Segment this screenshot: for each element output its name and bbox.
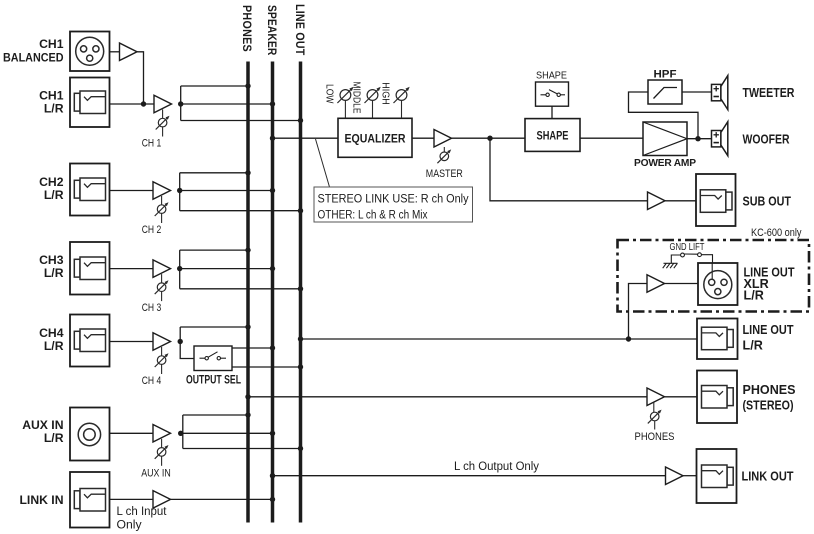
svg-text:OUTPUT SEL: OUTPUT SEL xyxy=(186,373,241,386)
svg-text:SUB OUT: SUB OUT xyxy=(743,194,792,208)
node SPEAKER bus LINK OUT tap xyxy=(270,473,275,478)
block POWER AMP xyxy=(634,122,696,169)
svg-text:LOW: LOW xyxy=(324,84,335,104)
pot HIGH xyxy=(380,82,410,118)
wire AUX jack to amp xyxy=(110,432,154,434)
svg-text:L/R: L/R xyxy=(743,339,763,353)
node AUX to SPEAKER bus xyxy=(270,431,275,436)
node CH3 amp out xyxy=(177,266,182,271)
wire master amp to SHAPE xyxy=(452,137,526,139)
block EQUALIZER xyxy=(338,118,412,157)
node PHONES bus tap xyxy=(245,394,250,399)
amp SUB OUT xyxy=(648,192,666,210)
pot AUX IN xyxy=(141,439,171,480)
amp CH3 xyxy=(153,260,171,278)
node OUTPUT SEL to SPEAKER bus xyxy=(270,345,275,350)
wire phones amp to jack xyxy=(665,396,698,398)
node speaker junction xyxy=(695,136,700,141)
node CH3 to LINE OUT bus xyxy=(298,286,303,291)
svg-text:CH 3: CH 3 xyxy=(142,302,162,314)
wire node to HPF xyxy=(629,92,699,139)
svg-text:L/R: L/R xyxy=(44,102,64,116)
svg-text:L ch Output Only: L ch Output Only xyxy=(454,459,540,473)
wire node to SUB OUT amp xyxy=(490,138,648,201)
svg-text:CH 2: CH 2 xyxy=(142,224,162,236)
bus SPEAKER xyxy=(271,62,275,523)
svg-text:MASTER: MASTER xyxy=(426,168,463,180)
jack LINE OUT XLR L/R xyxy=(698,263,795,305)
node shape tap xyxy=(487,136,492,141)
svg-text:CH3: CH3 xyxy=(39,253,64,267)
wire amp to LINK OUT jack xyxy=(683,475,697,477)
wire EQUALIZER to master amp xyxy=(412,137,434,139)
svg-text:PHONES: PHONES xyxy=(240,5,254,52)
node LINK IN to SPEAKER bus xyxy=(270,497,275,502)
svg-text:OTHER: L ch & R ch Mix: OTHER: L ch & R ch Mix xyxy=(318,208,429,222)
svg-text:AUX IN: AUX IN xyxy=(22,418,63,432)
node CH1 to LINE OUT bus xyxy=(298,118,303,123)
jack CH1 BALANCED xyxy=(3,32,110,72)
pot CH 2 xyxy=(142,196,169,236)
node AUX amp out xyxy=(178,431,183,436)
bus PHONES label xyxy=(240,5,254,52)
svg-text:L/R: L/R xyxy=(44,188,64,202)
pot MIDDLE xyxy=(351,82,381,119)
node AUX to LINE OUT bus xyxy=(298,446,303,451)
wire CH4 to PHONES bus xyxy=(180,327,248,359)
wire SPEAKER bus to LINK OUT amp xyxy=(273,475,666,477)
node CH1 to PHONES bus xyxy=(245,83,250,88)
jack AUX IN L/R xyxy=(22,408,109,461)
note L ch Output Only xyxy=(454,459,540,473)
node CH3 to SPEAKER bus xyxy=(270,266,275,271)
svg-text:L/R: L/R xyxy=(44,431,64,445)
node AUX to PHONES bus xyxy=(245,412,250,417)
svg-text:Only: Only xyxy=(117,518,143,532)
node CH1 to SPEAKER bus xyxy=(270,101,275,106)
wire LINK IN to SPEAKER bus xyxy=(171,498,273,500)
svg-text:HPF: HPF xyxy=(654,69,677,81)
amp CH1 BALANCED xyxy=(120,43,138,61)
amp PHONES xyxy=(647,388,665,406)
wire CH2 fork xyxy=(180,173,301,211)
wire CH2 jack to amp xyxy=(110,190,154,192)
svg-text:SHAPE: SHAPE xyxy=(536,71,567,82)
note STEREO LINK xyxy=(314,139,473,222)
note KC-600 only xyxy=(751,227,802,239)
amp AUX IN xyxy=(153,425,171,443)
svg-text:MIDDLE: MIDDLE xyxy=(351,82,362,114)
svg-text:LINE OUT: LINE OUT xyxy=(293,4,307,56)
wire OUTPUT SEL to LINE OUT bus xyxy=(232,366,301,368)
bus SPEAKER label xyxy=(265,5,279,56)
amp MASTER xyxy=(434,129,452,147)
svg-text:PHONES: PHONES xyxy=(743,383,796,397)
svg-text:CH 4: CH 4 xyxy=(142,375,162,387)
svg-text:LINE OUT: LINE OUT xyxy=(743,323,794,337)
wire CH3 fork xyxy=(180,250,301,289)
bus PHONES xyxy=(246,62,250,523)
wire HPF to TWEETER xyxy=(682,91,712,93)
svg-text:LINK OUT: LINK OUT xyxy=(742,470,794,484)
svg-text:PHONES: PHONES xyxy=(635,431,675,443)
pot CH 3 xyxy=(142,274,169,314)
svg-text:L/R: L/R xyxy=(744,289,764,303)
note L ch Input Only xyxy=(117,504,168,532)
wire LINK IN jack to amp xyxy=(110,498,154,500)
amp CH2 xyxy=(153,182,171,200)
svg-text:BALANCED: BALANCED xyxy=(3,50,64,64)
svg-text:EQUALIZER: EQUALIZER xyxy=(345,132,406,146)
jack CH2 L/R xyxy=(39,164,109,216)
jack CH1 L/R xyxy=(39,78,109,128)
svg-text:SHAPE: SHAPE xyxy=(537,129,569,143)
jack LINE OUT L/R xyxy=(697,319,794,360)
amp LINE OUT XLR xyxy=(647,275,665,293)
node SPEAKER bus EQ tap xyxy=(270,136,275,141)
svg-text:LINK IN: LINK IN xyxy=(19,493,63,507)
wire amp to SUB OUT jack xyxy=(665,200,696,202)
svg-text:CH 1: CH 1 xyxy=(142,138,162,150)
svg-text:(STEREO): (STEREO) xyxy=(743,399,794,413)
svg-text:CH4: CH4 xyxy=(39,326,64,340)
wire CH4 jack to amp xyxy=(110,341,154,343)
wire CH1 fork xyxy=(181,86,301,121)
pot CH 1 xyxy=(142,110,170,150)
svg-text:CH1: CH1 xyxy=(39,37,64,51)
wire OUTPUT SEL to SPEAKER bus xyxy=(232,347,273,349)
node LINE OUT bus tap xyxy=(298,336,303,341)
node OUTPUT SEL to LINE OUT bus xyxy=(298,364,303,369)
svg-text:L/R: L/R xyxy=(44,339,64,353)
frame KC-600 only dash-dot box xyxy=(618,240,810,312)
bus LINE OUT xyxy=(299,62,303,523)
svg-text:WOOFER: WOOFER xyxy=(743,132,790,146)
svg-text:L/R: L/R xyxy=(44,266,64,280)
node CH4 amp out xyxy=(178,339,183,344)
svg-text:CH1: CH1 xyxy=(39,89,64,103)
jack LINK IN xyxy=(19,472,109,528)
wire LINE OUT bus to LINE OUT jack xyxy=(301,338,698,340)
speaker TWEETER xyxy=(712,76,795,110)
wire PHONES bus to phones amp xyxy=(248,396,647,398)
ground xyxy=(663,263,678,268)
node CH2 to SPEAKER bus xyxy=(270,188,275,193)
svg-text:CH2: CH2 xyxy=(39,175,64,189)
jack PHONES (STEREO) xyxy=(697,371,796,424)
switch SHAPE xyxy=(536,71,569,119)
amp LINK IN xyxy=(153,491,171,509)
svg-text:TWEETER: TWEETER xyxy=(743,86,795,100)
wire SPEAKER bus to EQUALIZER xyxy=(273,137,339,139)
wire POWER AMP to WOOFER xyxy=(687,138,712,140)
speaker WOOFER xyxy=(712,122,790,156)
jack CH4 L/R xyxy=(39,315,109,367)
pot MASTER xyxy=(426,147,463,180)
svg-text:KC-600 only: KC-600 only xyxy=(751,227,802,239)
pot PHONES xyxy=(635,402,675,443)
switch OUTPUT SEL xyxy=(186,346,241,386)
svg-text:POWER AMP: POWER AMP xyxy=(634,158,696,169)
svg-text:SPEAKER: SPEAKER xyxy=(265,5,279,56)
jack SUB OUT xyxy=(696,174,791,226)
node CH2 to LINE OUT bus xyxy=(298,208,303,213)
jack CH3 L/R xyxy=(39,242,109,295)
wire CH3 jack to amp xyxy=(110,268,154,270)
wire SHAPE to POWER AMP xyxy=(580,137,643,139)
wire CH1 jack to amp xyxy=(110,103,155,105)
wire amp to XLR jack xyxy=(665,283,699,285)
node CH4 to PHONES bus xyxy=(245,324,250,329)
wire LINE OUT junction up to XLR amp xyxy=(629,284,648,340)
filter HPF xyxy=(648,69,682,105)
svg-text:GND LIFT: GND LIFT xyxy=(670,242,705,253)
jack LINK OUT xyxy=(697,449,794,503)
svg-text:STEREO LINK USE: R ch Only: STEREO LINK USE: R ch Only xyxy=(318,192,470,206)
amp CH1 xyxy=(154,95,172,113)
node CH1 input junction xyxy=(141,101,146,106)
node CH1 amp out xyxy=(178,101,183,106)
svg-text:AUX IN: AUX IN xyxy=(141,468,171,480)
svg-text:HIGH: HIGH xyxy=(380,82,391,105)
block SHAPE xyxy=(525,119,580,152)
node LINE OUT branch xyxy=(626,336,631,341)
node CH2 amp out xyxy=(177,188,182,193)
wire amp to CH1 node xyxy=(137,52,144,104)
svg-text:L ch Input: L ch Input xyxy=(117,504,168,518)
wire AUX fork xyxy=(181,415,301,449)
pot LOW xyxy=(324,84,354,118)
switch GND LIFT xyxy=(670,242,713,263)
node CH2 to PHONES bus xyxy=(245,170,250,175)
bus LINE OUT label xyxy=(293,4,307,56)
pot CH 4 xyxy=(142,347,169,387)
amp LINK OUT xyxy=(666,467,684,485)
node CH3 to PHONES bus xyxy=(245,247,250,252)
amp CH4 xyxy=(153,333,171,351)
wire CH1 BALANCED to amp xyxy=(110,51,120,53)
